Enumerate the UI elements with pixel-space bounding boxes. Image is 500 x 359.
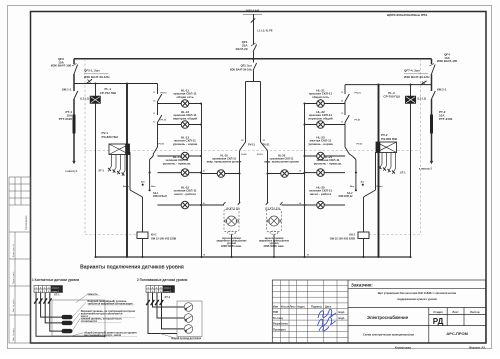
wire center split bbox=[246, 81, 261, 83]
wire left feed column bbox=[157, 84, 159, 95]
svg-text:ИЭК ВА47-29-1/6с: ИЭК ВА47-29-1/6с bbox=[404, 75, 430, 79]
left margin stamp column bbox=[9, 177, 31, 343]
indicator PL-2 bbox=[405, 96, 416, 104]
node return junction bbox=[200, 172, 202, 174]
wire right neutral return bbox=[304, 104, 306, 258]
relay PV-2 box bbox=[376, 142, 397, 153]
svg-text:поддержанием нужного уровня: поддержанием нужного уровня bbox=[397, 298, 437, 301]
svg-text:ИЭК КСВ-22: ИЭК КСВ-22 bbox=[153, 195, 168, 198]
contactor KM2-1 bbox=[432, 91, 436, 99]
lamp HL-26 bbox=[281, 170, 289, 178]
node return junction right bbox=[303, 155, 305, 157]
svg-text:PT-21: PT-21 bbox=[355, 120, 362, 122]
svg-text:ХТ-1: ХТ-1 bbox=[54, 293, 60, 297]
float switch F1 bbox=[184, 303, 193, 312]
svg-text:клема 2: клема 2 bbox=[52, 291, 60, 293]
thermal relay PT-2 terminals bbox=[430, 114, 433, 117]
svg-text:11: 11 bbox=[341, 92, 343, 94]
svg-text:клема 1: клема 1 bbox=[164, 287, 172, 289]
svg-text:Формат А3: Формат А3 bbox=[469, 345, 486, 349]
svg-text:QF7-4, 3шт: QF7-4, 3шт bbox=[404, 69, 420, 73]
float switch box bbox=[177, 301, 202, 337]
contact blade row 2 right bbox=[345, 115, 349, 123]
node junction top bus / QF1 bbox=[252, 58, 254, 60]
node N bus junction bbox=[273, 256, 275, 258]
wire right main bus bbox=[431, 59, 433, 64]
svg-text:PV-11: PV-11 bbox=[159, 144, 166, 146]
terminal strip XT float sensors bbox=[146, 286, 175, 293]
node N bus junction bbox=[303, 256, 305, 258]
svg-text:Выкл: Выкл bbox=[377, 186, 384, 188]
breaker QF1 bbox=[253, 52, 255, 59]
svg-text:ОМ 12-100-У02 220В: ОМ 12-100-У02 220В bbox=[151, 236, 176, 240]
svg-text:Вкл: Вкл bbox=[350, 186, 355, 188]
margin rotated texts bbox=[12, 215, 28, 341]
buzzer HA-1 bbox=[224, 210, 239, 235]
svg-text:РЭ-830 ПШ: РЭ-830 ПШ bbox=[381, 137, 397, 141]
svg-text:Разработал: Разработал bbox=[273, 322, 288, 326]
svg-text:19 20: 19 20 bbox=[241, 154, 247, 156]
svg-text:Проверил: Проверил bbox=[273, 327, 286, 331]
svg-text:РЭ-830 ПШ: РЭ-830 ПШ bbox=[102, 135, 118, 139]
wire PV-11 to buzzer 1 bbox=[239, 151, 241, 204]
node junction PV-2 tap bbox=[377, 84, 379, 86]
svg-text:(не соединять) корпус, земля: (не соединять) корпус, земля bbox=[84, 333, 122, 337]
svg-text:КН 2: КН 2 bbox=[349, 232, 355, 236]
svg-text:12: 12 bbox=[341, 100, 343, 102]
svg-text:требуется аварийная сигнализац: требуется аварийная сигнализация bbox=[88, 301, 133, 305]
svg-text:клема 1: клема 1 bbox=[52, 287, 60, 289]
node return junction bbox=[200, 123, 202, 125]
node return junction right bbox=[303, 172, 305, 174]
svg-text:Варианты подключения датчиков: Варианты подключения датчиков уровня bbox=[80, 264, 184, 270]
node junction row4 feed right bbox=[355, 172, 357, 174]
svg-text:ЩВО 0.4кВ: ЩВО 0.4кВ bbox=[246, 10, 260, 13]
contact blade row 1 left bbox=[158, 94, 162, 102]
svg-text:ИЭК ВА47-29-1/6с: ИЭК ВА47-29-1/6с bbox=[230, 68, 253, 72]
lamp HL-15 bbox=[181, 201, 189, 209]
svg-text:Инв. № дубл.: Инв. № дубл. bbox=[12, 299, 15, 312]
annotation texts bbox=[81, 292, 137, 337]
lamp HL-23 bbox=[317, 152, 325, 160]
svg-text:Взам. инв. №: Взам. инв. № bbox=[12, 243, 15, 257]
electrode E2 bbox=[62, 321, 73, 325]
terminal strip XT contact sensors bbox=[34, 286, 63, 293]
node common electrode junction bbox=[103, 335, 105, 337]
panel enclosure dashed outline bbox=[84, 59, 86, 235]
contact blade row 3 right bbox=[345, 147, 349, 154]
wire top bus bbox=[74, 58, 432, 60]
svg-text:(L1-L1): (L1-L1) bbox=[80, 96, 89, 100]
svg-text:Лист: Лист bbox=[452, 310, 459, 314]
svg-text:СР-732 ПШ: СР-732 ПШ bbox=[100, 91, 116, 95]
node junction HL-16/PV-11 wire bbox=[238, 172, 240, 174]
node N bus junction bbox=[230, 256, 232, 258]
pin numbers right column bbox=[341, 92, 343, 123]
float switch F3 bbox=[184, 325, 193, 334]
node SA-2 Авт position bbox=[362, 184, 364, 186]
wire HA-1 to N bus bbox=[231, 234, 233, 257]
svg-text:ХТ-1: ХТ-1 bbox=[400, 171, 406, 175]
svg-text:QF3-1, 3шт: QF3-1, 3шт bbox=[84, 69, 100, 73]
svg-text:КН 1: КН 1 bbox=[151, 232, 157, 236]
svg-text:11: 11 bbox=[153, 92, 155, 94]
PV-1 terminal pins XT-1 bbox=[108, 155, 125, 177]
svg-text:Щит управления 2мя насосами КН: Щит управления 2мя насосами КНС 2х8кВт с… bbox=[378, 291, 457, 295]
float switch F2 bbox=[184, 314, 193, 323]
selector switch SA-2 bbox=[364, 152, 376, 232]
lamp HL-14 bbox=[181, 169, 189, 177]
node junction SA-1 Вкл bbox=[149, 189, 151, 191]
pin numbers left column bbox=[153, 92, 155, 123]
svg-text:РД: РД bbox=[433, 317, 444, 326]
contact blade row 2 left bbox=[158, 115, 162, 123]
wire left control bus bbox=[74, 83, 158, 85]
lamp HL-16 bbox=[217, 170, 225, 178]
leader lines bbox=[70, 295, 87, 337]
lamp HL-12 bbox=[181, 121, 189, 129]
cable marks bbox=[34, 298, 38, 303]
wire PV-1 drop (thick) bbox=[126, 84, 128, 258]
lamp HL-11 bbox=[181, 100, 189, 108]
wire bottom N bus bbox=[96, 256, 411, 258]
node return junction bbox=[200, 155, 202, 157]
svg-text:клема 2: клема 2 bbox=[164, 291, 172, 293]
breaker QF4 bbox=[432, 65, 436, 75]
svg-text:Гл.спец.: Гл.спец. bbox=[273, 316, 284, 320]
svg-text:Щ5РХ 800х200х280мм IP54: Щ5РХ 800х200х280мм IP54 bbox=[387, 13, 428, 17]
leader to common label bbox=[160, 334, 173, 338]
svg-text:Подпись: Подпись bbox=[311, 305, 322, 309]
tank outline bbox=[52, 300, 105, 336]
svg-text:Стадия: Стадия bbox=[433, 310, 443, 314]
wire transition to lower column right bbox=[352, 156, 356, 160]
title block grid bbox=[272, 280, 485, 343]
selector switch SA-1 bbox=[130, 152, 143, 232]
svg-text:(L1-L3): (L1-L3) bbox=[418, 96, 427, 100]
node return junction right bbox=[303, 123, 305, 125]
svg-text:к насосу 1: к насосу 1 bbox=[65, 170, 78, 173]
dashed separator line bbox=[85, 150, 421, 152]
node SA-1 Авт position bbox=[142, 184, 144, 186]
wire left main bus bbox=[73, 59, 75, 64]
node junction SA-2 Вкл bbox=[355, 189, 357, 191]
svg-text:2 Поплавковые датчики уровня: 2 Поплавковые датчики уровня bbox=[137, 278, 188, 282]
svg-text:ХТ-1: ХТ-1 bbox=[165, 295, 171, 299]
electrode E1 bbox=[62, 315, 73, 319]
lamp HL-22 bbox=[317, 121, 325, 129]
cable marks bbox=[146, 300, 150, 305]
svg-text:СР-700 ПШ: СР-700 ПШ bbox=[383, 95, 399, 99]
wire row5 to buzzer1 bbox=[202, 204, 225, 206]
node junction PL-1 tap bbox=[94, 82, 96, 84]
node N bus junction bbox=[141, 256, 143, 258]
svg-text:12: 12 bbox=[341, 121, 343, 123]
indicator PL-1 bbox=[90, 96, 101, 104]
lamp HL-13 bbox=[181, 152, 189, 160]
svg-text:№док.: №док. bbox=[297, 306, 305, 309]
buzzer HA-2 bbox=[267, 210, 282, 235]
cable wires contact sensors bbox=[36, 293, 105, 337]
wire row5 to buzzer2 bbox=[282, 204, 305, 206]
arrow to pump 2 bbox=[430, 161, 432, 164]
relay PV-1 box bbox=[109, 144, 130, 155]
svg-text:L1-L3, N, PE: L1-L3, N, PE bbox=[257, 29, 272, 33]
breaker QF5 center bbox=[253, 59, 255, 63]
breaker QF2 bbox=[74, 65, 78, 75]
node junction row4 feed left bbox=[149, 172, 151, 174]
node junction PV-1 tap bbox=[126, 82, 128, 84]
node N bus junction bbox=[409, 256, 411, 258]
title block right grid bbox=[348, 289, 486, 343]
svg-text:Изм: Изм bbox=[273, 305, 278, 309]
contact blade row 3 left bbox=[153, 147, 157, 154]
svg-text:ОМ 12-100-У02 220В: ОМ 12-100-У02 220В bbox=[330, 236, 355, 240]
wire right control bus bbox=[345, 84, 432, 86]
svg-text:Электроснабжение: Электроснабжение bbox=[367, 315, 409, 320]
node N bus junction bbox=[362, 256, 364, 258]
svg-text:подл.: подл. bbox=[338, 311, 345, 314]
wire PL-1 drop bbox=[95, 84, 97, 97]
svg-text:11: 11 bbox=[341, 113, 343, 115]
svg-text:PV-21: PV-21 bbox=[357, 144, 364, 146]
svg-text:к насосу 2: к насосу 2 bbox=[419, 167, 433, 171]
breaker QF3-1 bbox=[87, 79, 93, 83]
svg-text:PV-11: PV-11 bbox=[248, 143, 255, 147]
svg-text:PH-11: PH-11 bbox=[161, 93, 168, 95]
svg-text:Вкл: Вкл bbox=[151, 186, 156, 188]
wire HL-26 branch bbox=[268, 173, 305, 175]
node return junction right bbox=[303, 102, 305, 104]
svg-text:АРС-ПРОМ: АРС-ПРОМ bbox=[446, 331, 468, 336]
svg-text:Заказчик:: Заказчик: bbox=[351, 283, 373, 288]
wire transition to lower column bbox=[150, 156, 154, 160]
node N bus junction bbox=[377, 256, 379, 258]
wire right feed column bbox=[344, 85, 346, 94]
wire PV-21 to buzzer 2 bbox=[267, 151, 269, 204]
wire left neutral return bbox=[201, 104, 203, 258]
svg-text:Копировал: Копировал bbox=[395, 345, 411, 349]
breaker QF7-4 bbox=[421, 81, 427, 85]
cable break marks bbox=[251, 19, 255, 23]
lamp HL-25 bbox=[317, 201, 325, 209]
wire right lamp rows bbox=[305, 103, 346, 105]
svg-text:ёмкость: ёмкость bbox=[88, 292, 99, 296]
lamp HL-21 bbox=[317, 100, 325, 108]
node junction PL-2 tap bbox=[409, 84, 411, 86]
contact PV-21 bbox=[261, 142, 268, 151]
svg-text:подл.: подл. bbox=[338, 317, 345, 320]
svg-text:ГИП: ГИП bbox=[273, 310, 278, 314]
contact blade row 1 right bbox=[345, 94, 349, 102]
cable wires float sensors bbox=[148, 293, 184, 334]
svg-text:Дата: Дата bbox=[325, 305, 331, 309]
svg-text:PV-21: PV-21 bbox=[263, 143, 271, 147]
wire incoming from ЩВО bbox=[243, 13, 262, 15]
svg-text:КМ 2-1: КМ 2-1 bbox=[437, 88, 447, 92]
svg-text:12: 12 bbox=[153, 121, 155, 123]
revision table header bbox=[273, 305, 345, 332]
svg-text:ИЭК ВА47-29-1/6с: ИЭК ВА47-29-1/6с bbox=[84, 75, 110, 79]
svg-text:ХТ-1: ХТ-1 bbox=[98, 169, 104, 173]
svg-text:Лист: Лист bbox=[290, 305, 297, 309]
wire left lamp rows bbox=[158, 103, 202, 105]
svg-text:ИЭК КСВ-22: ИЭК КСВ-22 bbox=[339, 195, 354, 198]
svg-text:PH-21: PH-21 bbox=[355, 93, 362, 95]
contact PV-11 bbox=[240, 142, 246, 151]
PV-2 terminal pins XT-1 bbox=[379, 153, 396, 175]
svg-text:КМ 1-1: КМ 1-1 bbox=[62, 88, 72, 92]
svg-text:(9 ХТ-1 10): (9 ХТ-1 10) bbox=[226, 207, 239, 211]
node return junction bbox=[200, 102, 202, 104]
svg-text:Листов: Листов bbox=[470, 310, 480, 314]
wire PV-2 drop (thick) bbox=[378, 85, 380, 257]
node return junction bbox=[200, 204, 202, 206]
svg-text:PT-11: PT-11 bbox=[161, 120, 167, 122]
lamp HL-24 bbox=[317, 169, 325, 177]
svg-text:QF5, 1шт: QF5, 1шт bbox=[241, 64, 253, 68]
svg-text:11: 11 bbox=[153, 113, 155, 115]
wire HL-16 branch bbox=[202, 173, 240, 175]
arrow to pump 1 bbox=[73, 161, 75, 164]
node junction HL-26/PV-21 wire bbox=[266, 172, 268, 174]
node N bus junction bbox=[126, 256, 128, 258]
svg-text:Кол.уч: Кол.уч bbox=[281, 305, 290, 309]
node return junction right bbox=[303, 204, 305, 206]
svg-text:Инв. № подл.: Инв. № подл. bbox=[12, 328, 15, 341]
electrode E3 bbox=[62, 329, 73, 333]
svg-text:Схема электрическая принципиал: Схема электрическая принципиальная bbox=[363, 333, 414, 337]
wire PL-2 drop bbox=[410, 85, 412, 96]
thermal relay PT-1 terminals bbox=[73, 114, 76, 117]
svg-text:20 19: 20 19 bbox=[257, 154, 263, 156]
svg-text:1 Контактные датчики уровня: 1 Контактные датчики уровня bbox=[32, 278, 79, 282]
node N bus junction bbox=[200, 256, 202, 258]
wire HA-2 to N bus bbox=[273, 234, 275, 257]
signature scribbles bbox=[318, 309, 337, 331]
svg-text:Подп. и дата: Подп. и дата bbox=[13, 271, 15, 284]
contactor KM1-1 bbox=[74, 91, 78, 99]
svg-text:12: 12 bbox=[153, 100, 155, 102]
relay coil KH-2 bbox=[358, 232, 369, 239]
relay coil KH-1 bbox=[137, 232, 148, 239]
node N bus junction bbox=[94, 256, 96, 258]
svg-text:Выкл: Выкл bbox=[123, 186, 130, 188]
svg-text:Согласовано: Согласовано bbox=[25, 215, 28, 230]
